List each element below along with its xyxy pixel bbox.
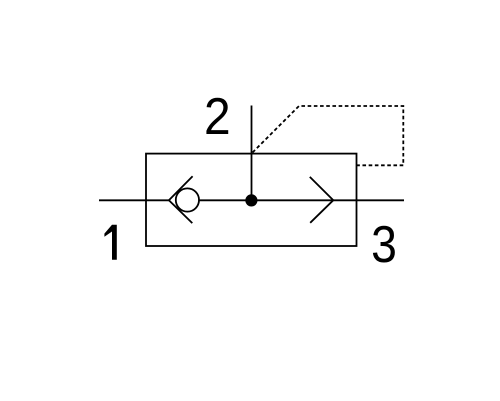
svg-text:2: 2 [204,88,231,146]
port label 1 [104,225,116,260]
pilot line (dashed) [253,106,404,165]
valve body (rectangle enclosure) [146,154,357,246]
port label 3 [371,217,397,274]
flow arrow to port 3 (chevron) [310,177,334,223]
check valve V1 ball (circle) [176,188,199,211]
wire: center horizontal line to port 3 [199,199,404,201]
wire: port 1 line (left horizontal) [99,199,170,201]
wire: port 2 vertical line [251,106,253,201]
node junction (dot) [245,194,257,206]
check valve V1 seat (chevron) [169,176,193,223]
port label 2 [204,88,231,146]
svg-text:3: 3 [371,217,397,274]
